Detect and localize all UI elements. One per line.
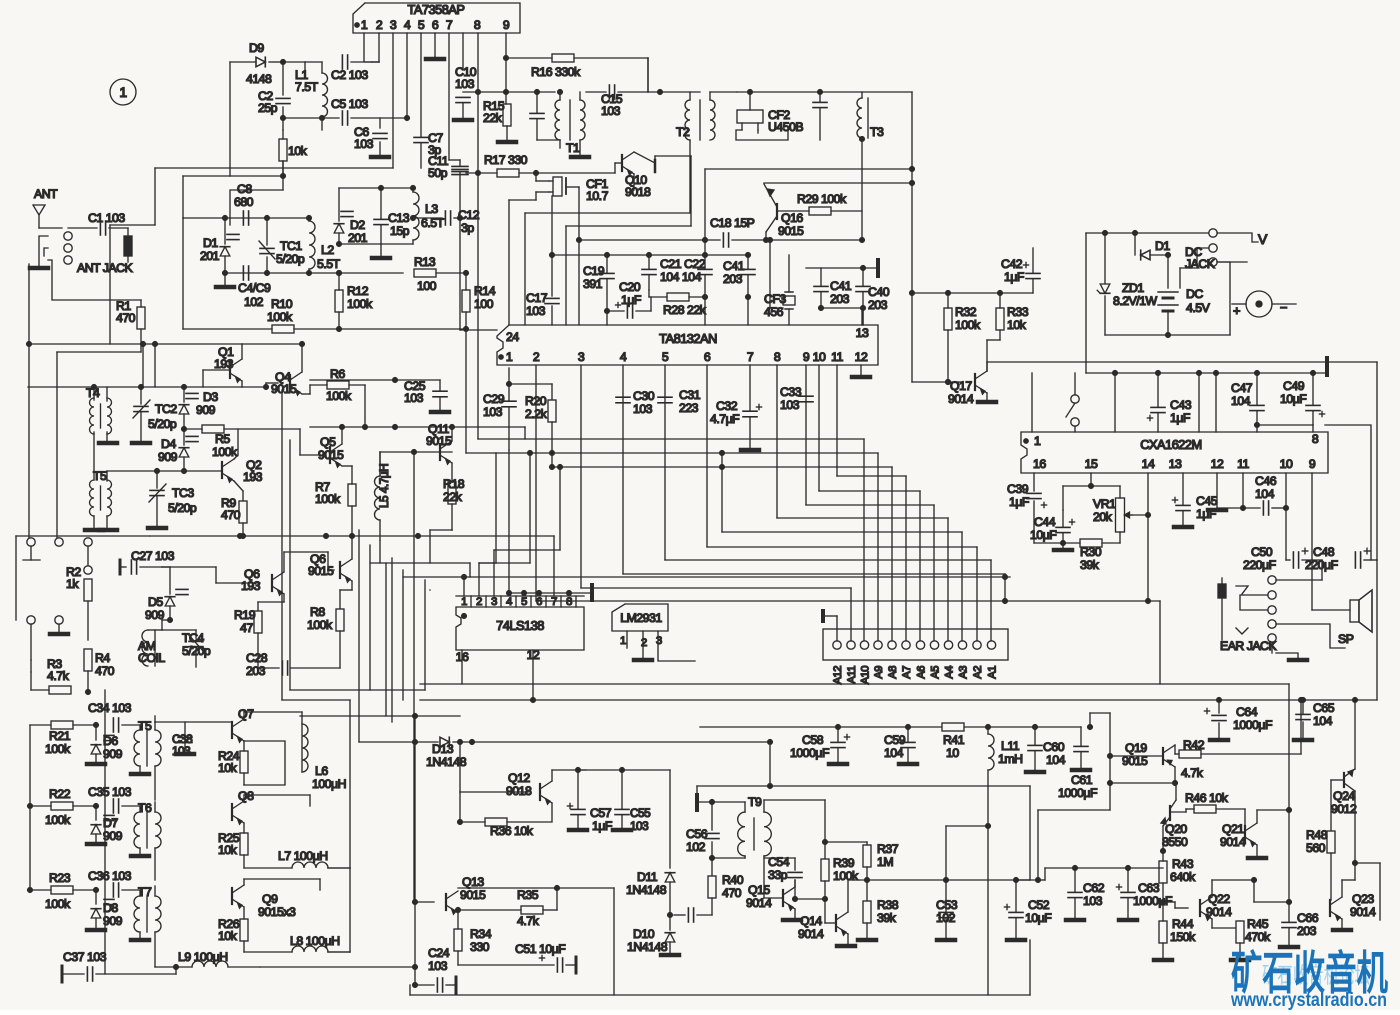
wire pin2 to bus601 <box>535 365 537 601</box>
svg-text:R6: R6 <box>330 367 345 381</box>
transistor Q2 193 <box>221 462 223 478</box>
capacitor C36 103 <box>112 883 114 897</box>
svg-text:193: 193 <box>214 357 234 371</box>
wire trunk y427 <box>310 426 525 428</box>
ceramic filter CF2 U450B <box>737 110 763 123</box>
wire T4 to T5 left link <box>93 432 95 480</box>
svg-text:9018: 9018 <box>506 784 532 798</box>
svg-text:C2 103: C2 103 <box>331 68 368 82</box>
capacitor C11 50p <box>452 168 468 170</box>
svg-text:TC2: TC2 <box>155 402 177 416</box>
resistor R37 1M vertical <box>825 841 867 843</box>
resistor R9 470 vertical <box>239 501 247 523</box>
capacitor C? near T3 <box>813 101 827 103</box>
svg-text:L6: L6 <box>315 764 328 778</box>
svg-text:100k: 100k <box>326 389 352 403</box>
svg-text:103: 103 <box>780 398 800 412</box>
IC U5 LM2931 <box>612 604 668 631</box>
capacitor C21 104 <box>642 268 656 270</box>
svg-text:DC: DC <box>1186 287 1203 301</box>
wire T9 secondary loop <box>763 800 765 812</box>
svg-text:C49: C49 <box>1283 379 1305 393</box>
svg-text:103: 103 <box>633 402 653 416</box>
svg-text:C55: C55 <box>630 806 651 820</box>
capacitor C19 391 <box>600 272 614 274</box>
svg-text:A8: A8 <box>887 666 899 679</box>
svg-text:Q8: Q8 <box>238 789 254 803</box>
wire vertical corridor x648 down <box>647 58 649 92</box>
svg-text:3: 3 <box>390 18 397 32</box>
wire Q6 collector to Q6b base <box>283 552 285 572</box>
svg-text:T3: T3 <box>870 125 884 139</box>
wire Q1 base <box>203 369 230 371</box>
svg-text:103: 103 <box>428 959 448 973</box>
resistor R14 100 vertical <box>462 290 470 312</box>
svg-text:R32: R32 <box>955 305 977 319</box>
wire TA7358 pin1 down <box>364 33 372 62</box>
svg-text:391: 391 <box>583 277 603 291</box>
74LS138 top pin number row <box>456 595 584 597</box>
svg-text:C29: C29 <box>483 392 505 406</box>
diode D1 (power) <box>1134 233 1136 255</box>
svg-text:Q9: Q9 <box>262 892 278 906</box>
svg-text:6: 6 <box>536 596 542 608</box>
jack contacts mid-left <box>27 538 35 546</box>
svg-text:1k: 1k <box>66 577 79 591</box>
wire TA7358 pin1 to D9 node <box>372 61 379 63</box>
capacitor C32 4.7uF inline pin7 <box>743 410 757 412</box>
svg-text:C66: C66 <box>1297 911 1319 925</box>
wire base row y899 <box>795 898 825 900</box>
svg-text:Q15: Q15 <box>748 883 770 897</box>
wire Q16 collector down <box>769 240 771 308</box>
svg-text:D1: D1 <box>203 236 218 250</box>
CXA top pin stubs <box>1031 373 1033 432</box>
wire bottom long bus <box>410 994 1030 996</box>
svg-text:9015: 9015 <box>271 382 297 396</box>
wire trunk y536 <box>150 535 530 537</box>
svg-text:15p: 15p <box>390 224 410 238</box>
transistor Q22 9014 <box>1199 900 1201 916</box>
wire trunk y577 <box>403 576 1010 578</box>
capacitor C4/C9 102 <box>242 266 244 280</box>
wire band switch verticals down <box>154 716 156 722</box>
svg-text:104: 104 <box>1313 714 1333 728</box>
svg-text:9014: 9014 <box>1220 835 1246 849</box>
capacitor C1 103 <box>99 221 101 235</box>
svg-text:2: 2 <box>376 18 383 32</box>
svg-text:LM2931: LM2931 <box>620 611 662 625</box>
second C41 203 <box>814 285 828 287</box>
svg-text:C46: C46 <box>1255 474 1277 488</box>
wire from 10k down-left mesh <box>230 190 283 225</box>
wire pin6 stub to gnd <box>434 33 436 57</box>
wire Q22 collector <box>1211 880 1213 897</box>
wire rail y783 <box>1110 782 1175 784</box>
svg-text:193: 193 <box>243 470 263 484</box>
resistor R23 100k <box>51 886 73 894</box>
svg-text:1: 1 <box>506 350 513 364</box>
svg-text:CF3: CF3 <box>764 292 786 306</box>
svg-text:9012: 9012 <box>1331 802 1357 816</box>
svg-text:8: 8 <box>474 18 481 32</box>
svg-text:103: 103 <box>483 405 503 419</box>
resistor R24 10k vertical <box>240 751 248 773</box>
svg-text:104 104: 104 104 <box>660 270 702 284</box>
svg-text:10k: 10k <box>1007 318 1027 332</box>
capacitor C57 1uF <box>571 808 585 810</box>
capacitor C50 220uF <box>1292 552 1294 568</box>
svg-text:7: 7 <box>551 596 557 608</box>
svg-text:103: 103 <box>601 104 621 118</box>
wires Q7 block <box>244 741 285 785</box>
LM2931 pin3 wire <box>658 631 695 661</box>
resistor R41 10 in rail <box>942 723 964 731</box>
wire Q23 collector <box>1341 880 1343 897</box>
svg-text:R19: R19 <box>234 608 256 622</box>
svg-text:9: 9 <box>1309 457 1316 471</box>
svg-text:D4: D4 <box>161 437 176 451</box>
wire osc top rail <box>183 217 309 219</box>
wire 10k staircase <box>282 161 284 176</box>
svg-text:1μF: 1μF <box>1004 270 1025 284</box>
wire pin2 to C2b <box>378 33 380 62</box>
transistor Q19 9015 <box>1162 748 1164 764</box>
wire mesh vertical x386 <box>385 563 387 716</box>
capacitor C5 103 horizontal <box>341 111 343 125</box>
svg-text:8.2V/1W: 8.2V/1W <box>1113 294 1158 308</box>
wire fanout line A10 <box>478 438 864 440</box>
resistor R17 330 horizontal <box>497 169 519 177</box>
svg-text:D2: D2 <box>350 218 365 232</box>
wire 74LS138 bottom pins <box>461 650 463 684</box>
svg-text:5: 5 <box>662 350 669 364</box>
wire C25 rail <box>310 379 440 381</box>
capacitor C49 10uF <box>1306 404 1320 406</box>
wire T2 bottom corridor <box>689 140 691 213</box>
svg-text:4: 4 <box>506 596 512 608</box>
capacitor C33 103 inline pin9 <box>799 395 813 397</box>
capacitor C34 103 <box>112 718 114 732</box>
wire Q7 collector loop <box>243 712 245 719</box>
wire Q14 collector <box>847 880 849 912</box>
svg-text:1μF: 1μF <box>592 819 613 833</box>
svg-text:A4: A4 <box>944 666 956 679</box>
svg-text:12: 12 <box>855 350 868 364</box>
transistor Q16 9015 <box>776 204 778 219</box>
diode D9 4148 <box>256 57 265 67</box>
svg-text:R34: R34 <box>470 927 492 941</box>
jack contacts lower-left <box>27 616 35 624</box>
inductor L9 100uH <box>192 961 228 967</box>
wire Q6b emitter to R8 <box>351 581 353 590</box>
svg-text:D5: D5 <box>148 595 163 609</box>
wire FM rail y387 <box>28 386 242 388</box>
svg-text:9014: 9014 <box>798 927 824 941</box>
svg-text:C42: C42 <box>1001 257 1023 271</box>
svg-text:8: 8 <box>1312 432 1319 446</box>
svg-text:R8: R8 <box>310 605 325 619</box>
svg-text:Q16: Q16 <box>781 211 803 225</box>
wire fanout line A6 from pin10 <box>818 365 820 491</box>
wire trunk y590 <box>429 589 431 591</box>
svg-text:R46 10k: R46 10k <box>1185 791 1229 805</box>
node D3/D4/R5 <box>182 427 187 432</box>
wire Q24 base R48 <box>1331 779 1344 781</box>
resistor R12 100k vertical <box>335 290 343 312</box>
wire C15 node to T2 <box>658 90 663 95</box>
svg-text:103: 103 <box>455 77 475 91</box>
svg-text:C28: C28 <box>246 651 268 665</box>
resistor R32 100k vertical <box>944 308 952 330</box>
svg-text:24: 24 <box>506 330 519 344</box>
capacitor C65 104 <box>1302 700 1304 713</box>
svg-text:C62: C62 <box>1083 881 1105 895</box>
right border down <box>1376 362 1378 560</box>
capacitor C58 1000uF <box>831 741 845 743</box>
wire antenna to C1 <box>39 227 62 229</box>
resistor R18 22k vertical <box>448 482 456 504</box>
transistor Q7 <box>231 722 233 738</box>
diode D6 909 <box>95 725 97 740</box>
svg-text:A11: A11 <box>846 666 858 684</box>
svg-text:TC4: TC4 <box>182 631 204 645</box>
wire fanout line A3 from rail <box>721 453 723 532</box>
svg-text:103: 103 <box>172 744 191 758</box>
svg-text:T9: T9 <box>748 795 762 809</box>
svg-text:10k: 10k <box>218 929 238 943</box>
svg-text:47: 47 <box>240 621 253 635</box>
wire Q4 emitter to R6 <box>302 393 310 395</box>
svg-text:39k: 39k <box>877 911 897 925</box>
capacitor C62 103 <box>1068 891 1082 893</box>
svg-text:4.7k: 4.7k <box>1181 766 1204 780</box>
wire D2 bottom node <box>339 243 381 245</box>
svg-text:C53: C53 <box>936 898 958 912</box>
wire jack sleeve gnd <box>1276 653 1298 658</box>
svg-text:C35 103: C35 103 <box>88 785 132 799</box>
IC U1 TA7358AP <box>353 3 520 33</box>
wire TA8132 pin13 top stub <box>861 308 863 325</box>
resistor R40 470 vertical <box>711 858 713 876</box>
wire C47/C49 to pin8 <box>1257 424 1313 426</box>
capacitor C22 104 <box>698 268 712 270</box>
transistor Q20 8550 <box>1169 806 1171 820</box>
resistor R25 10k vertical <box>240 833 248 855</box>
svg-text:A12: A12 <box>832 666 844 685</box>
svg-text:9015: 9015 <box>318 448 344 462</box>
svg-text:C61: C61 <box>1071 773 1093 787</box>
wire pin8 right to C48 top <box>1325 425 1371 560</box>
svg-text:6: 6 <box>432 18 439 32</box>
svg-text:9015: 9015 <box>308 564 334 578</box>
wire IF node rail <box>552 254 748 256</box>
svg-text:TC3: TC3 <box>172 486 194 500</box>
capacitor C29 103 inline pin1 <box>508 368 510 401</box>
wire Q5 collector up <box>341 427 343 444</box>
svg-text:1N4148: 1N4148 <box>627 940 668 954</box>
svg-text:470: 470 <box>722 886 742 900</box>
svg-text:1000μF: 1000μF <box>790 746 830 760</box>
transformer T1 <box>555 100 560 140</box>
svg-text:100k: 100k <box>955 318 981 332</box>
wire fanout line A7 from pin11 <box>836 365 838 476</box>
svg-text:R40: R40 <box>722 873 744 887</box>
svg-text:C41: C41 <box>830 279 852 293</box>
svg-text:909: 909 <box>158 450 178 464</box>
DC jack contacts <box>1209 229 1217 237</box>
svg-text:3p: 3p <box>461 221 474 235</box>
transformer T4 <box>90 398 95 434</box>
wire Q4 base <box>266 382 278 384</box>
wire audio det rail <box>867 879 1016 881</box>
inductor L7 100uH <box>292 862 328 868</box>
wire battery bottom rail <box>1104 296 1106 335</box>
wire speaker return <box>1376 560 1378 700</box>
ground bar right of C40 <box>876 260 880 276</box>
svg-text:Q7: Q7 <box>238 707 254 721</box>
diode D10 1N4148 <box>665 933 675 942</box>
power plug symbol <box>1246 291 1272 317</box>
svg-text:100: 100 <box>474 297 494 311</box>
svg-text:C63: C63 <box>1138 881 1160 895</box>
svg-text:R30: R30 <box>1080 545 1102 559</box>
transistor Q6b 9015 <box>339 562 341 578</box>
wire Q12 base <box>460 791 528 793</box>
svg-text:R39: R39 <box>833 856 855 870</box>
varactor D3 909 <box>186 392 198 394</box>
IC U2 TA8132AN <box>497 325 878 365</box>
svg-text:−: − <box>1280 300 1287 315</box>
transistor Q6 193 <box>271 575 273 591</box>
svg-text:C45: C45 <box>1196 494 1218 508</box>
svg-text:4.5V: 4.5V <box>1186 301 1211 315</box>
wire Q21 emitter gnd <box>1256 845 1258 856</box>
svg-text:103: 103 <box>354 137 374 151</box>
diode D13 1N4148 <box>440 737 449 747</box>
transformer T3 <box>857 98 862 138</box>
svg-text:2: 2 <box>641 637 647 649</box>
wire D9 anode left rail <box>229 62 231 176</box>
resistor R38 39k vertical <box>866 880 868 901</box>
svg-text:C19: C19 <box>583 264 605 278</box>
wire FM band rail y344 <box>29 343 242 345</box>
wire Q8 collector <box>243 795 245 801</box>
transistor Q21 9014 <box>1244 826 1246 842</box>
wire audio rails <box>1045 867 1163 869</box>
wire Q6b collector to trunk <box>351 536 353 559</box>
trimmer TC3 5/20p <box>156 471 158 488</box>
svg-text:5/20p: 5/20p <box>168 501 197 515</box>
switch above CXA <box>1071 395 1079 403</box>
svg-text:1: 1 <box>461 596 467 608</box>
transistor Q11 9015 <box>439 444 441 460</box>
ceramic filter CF3 456 <box>783 296 795 305</box>
svg-text:10k: 10k <box>218 761 238 775</box>
svg-text:8: 8 <box>774 350 781 364</box>
capacitor C6 103 vertical <box>379 118 381 128</box>
svg-text:7.5T: 7.5T <box>295 80 319 94</box>
wire mesh verticals bundle <box>358 530 360 742</box>
capacitor C43 1uF <box>1151 406 1165 408</box>
svg-text:C60: C60 <box>1043 740 1065 754</box>
Q10 collector bar <box>654 160 657 172</box>
wire C66 node to Q22 bus <box>1254 901 1289 903</box>
svg-text:1: 1 <box>361 18 368 32</box>
svg-text:220μF: 220μF <box>1243 558 1277 572</box>
svg-text:470: 470 <box>116 311 136 325</box>
svg-text:C4/C9: C4/C9 <box>238 281 271 295</box>
resistor R35 4.7k <box>521 906 543 914</box>
svg-text:456: 456 <box>764 305 784 319</box>
inductor L6 100uH <box>302 724 308 772</box>
svg-text:680: 680 <box>234 195 254 209</box>
resistor R16 330k horizontal <box>552 54 574 62</box>
svg-text:102: 102 <box>244 295 264 309</box>
wire R5 to Q5 base <box>299 429 301 455</box>
capacitor C2 25p vertical <box>282 62 284 95</box>
svg-text:C43: C43 <box>1170 398 1192 412</box>
svg-text:100k: 100k <box>307 618 333 632</box>
transistor Q14 9014 <box>835 915 837 931</box>
svg-text:R17 330: R17 330 <box>484 153 528 167</box>
svg-text:R28 22k: R28 22k <box>663 303 707 317</box>
svg-text:100k: 100k <box>347 297 373 311</box>
svg-text:Q23: Q23 <box>1352 892 1374 906</box>
power rail C58..L11 <box>700 726 1081 728</box>
svg-text:470: 470 <box>95 664 115 678</box>
VCC rail above CXA <box>1086 372 1327 374</box>
svg-text:C48: C48 <box>1313 545 1335 559</box>
resistor 10k vertical near C2 <box>279 139 287 161</box>
wire pin3 to A11 <box>580 365 582 588</box>
svg-text:4.7k: 4.7k <box>517 914 540 928</box>
capacitor C7 3p vertical <box>414 136 428 138</box>
ear jack <box>1321 560 1323 580</box>
svg-text:2: 2 <box>476 596 482 608</box>
svg-text:9014: 9014 <box>948 392 974 406</box>
svg-text:193: 193 <box>241 579 261 593</box>
svg-text:39k: 39k <box>1080 558 1100 572</box>
wire pin6 branch <box>434 57 436 59</box>
resistor R44 150k vertical <box>1159 921 1167 943</box>
capacitor C53 102 <box>939 911 953 913</box>
transistor Q4 9015 <box>289 375 291 391</box>
svg-text:Q24: Q24 <box>1333 789 1355 803</box>
inductor L3 6.5T <box>413 192 419 240</box>
wire rail right vertical x912 <box>911 92 913 293</box>
svg-text:330: 330 <box>470 940 490 954</box>
wire right vertical to C66 node <box>1288 684 1290 810</box>
wire VR1 frame y486 <box>1090 473 1092 486</box>
trimmer TC4 5/20p <box>162 629 196 631</box>
capacitor C38 103 <box>178 736 192 738</box>
svg-text:TC1: TC1 <box>280 239 302 253</box>
IC U4 74LS138 <box>456 607 584 650</box>
svg-text:R37: R37 <box>877 842 899 856</box>
svg-text:C37 103: C37 103 <box>63 950 107 964</box>
svg-text:909: 909 <box>103 914 123 928</box>
svg-text:ANT JACK: ANT JACK <box>77 261 134 275</box>
resistor R4 470 <box>84 649 92 671</box>
svg-text:203: 203 <box>246 664 266 678</box>
svg-text:EAR JACK: EAR JACK <box>1220 639 1277 653</box>
svg-text:5/20p: 5/20p <box>182 644 211 658</box>
left T-bar near T9 <box>695 795 699 810</box>
capacitor C41 203 <box>741 268 755 270</box>
capacitor C54 33p <box>794 880 796 887</box>
svg-text:C33: C33 <box>780 385 802 399</box>
